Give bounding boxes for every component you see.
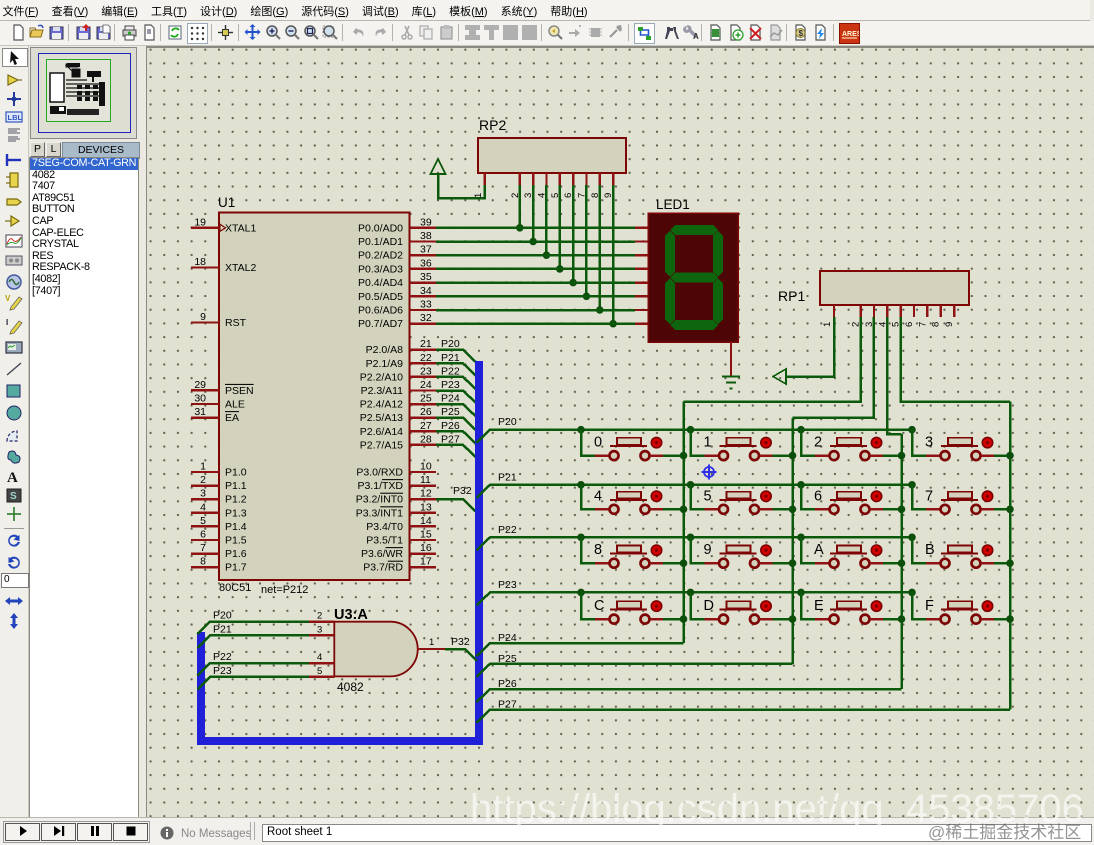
svg-text:1: 1 — [704, 435, 712, 451]
svg-text:P27: P27 — [498, 699, 517, 711]
svg-text:1: 1 — [473, 193, 484, 198]
svg-text:7: 7 — [200, 542, 206, 554]
svg-text:33: 33 — [420, 299, 432, 311]
svg-text:P25: P25 — [441, 406, 460, 418]
svg-text:P21: P21 — [498, 471, 517, 483]
svg-text:PSEN: PSEN — [225, 385, 254, 397]
svg-text:P0.0/AD0: P0.0/AD0 — [358, 222, 403, 234]
svg-text:P0.4/AD4: P0.4/AD4 — [358, 277, 403, 289]
svg-text:P21: P21 — [213, 623, 232, 635]
svg-text:A: A — [7, 470, 18, 485]
svg-text:16: 16 — [420, 542, 432, 554]
svg-text:P32: P32 — [451, 636, 470, 648]
svg-text:4: 4 — [317, 652, 322, 663]
svg-text:3: 3 — [317, 624, 322, 635]
svg-text:P1.1: P1.1 — [225, 480, 247, 492]
svg-text:P25: P25 — [498, 653, 517, 665]
svg-text:P20: P20 — [441, 338, 460, 350]
svg-text:8: 8 — [931, 322, 942, 327]
svg-text:P1.7: P1.7 — [225, 562, 247, 574]
svg-text:2: 2 — [814, 435, 822, 451]
svg-text:9: 9 — [603, 193, 614, 198]
svg-text:17: 17 — [420, 556, 432, 568]
svg-text:P23: P23 — [213, 665, 232, 677]
svg-text:8: 8 — [200, 556, 206, 568]
svg-text:P1.2: P1.2 — [225, 494, 247, 506]
svg-text:4: 4 — [200, 501, 206, 513]
svg-text:P1.4: P1.4 — [225, 521, 247, 533]
svg-text:P3.5/T1: P3.5/T1 — [366, 535, 403, 547]
svg-text:32: 32 — [420, 312, 432, 324]
svg-text:P1.0: P1.0 — [225, 467, 247, 479]
svg-text:P3.6/WR: P3.6/WR — [361, 548, 403, 560]
svg-text:P1.3: P1.3 — [225, 507, 247, 519]
svg-text:P23: P23 — [441, 379, 460, 391]
svg-text:26: 26 — [420, 406, 432, 418]
svg-text:F: F — [925, 598, 934, 614]
svg-text:30: 30 — [194, 393, 206, 405]
svg-text:2: 2 — [510, 193, 521, 198]
svg-text:P1.5: P1.5 — [225, 535, 247, 547]
svg-text:P3.7/RD: P3.7/RD — [363, 562, 403, 574]
svg-text:5: 5 — [200, 515, 206, 527]
svg-text:P20: P20 — [498, 416, 517, 428]
svg-text:P3.0/RXD: P3.0/RXD — [356, 467, 403, 479]
svg-text:9: 9 — [200, 311, 206, 323]
svg-text:EA: EA — [225, 412, 239, 424]
svg-text:4: 4 — [536, 193, 547, 198]
svg-text:4082: 4082 — [337, 680, 364, 694]
svg-text:23: 23 — [420, 365, 432, 377]
svg-text:P0.2/AD2: P0.2/AD2 — [358, 250, 403, 262]
svg-text:B: B — [925, 542, 935, 558]
svg-text:6: 6 — [814, 488, 822, 504]
svg-text:21: 21 — [420, 338, 432, 350]
svg-text:$: $ — [799, 29, 804, 38]
svg-text:I: I — [6, 318, 8, 327]
svg-text:P22: P22 — [498, 524, 517, 536]
svg-text:7: 7 — [917, 322, 928, 327]
svg-text:P2.6/A14: P2.6/A14 — [360, 426, 403, 438]
svg-text:37: 37 — [420, 244, 432, 256]
svg-text:P0.1/AD1: P0.1/AD1 — [358, 236, 403, 248]
svg-text:P20: P20 — [213, 610, 232, 622]
svg-text:RST: RST — [225, 317, 247, 329]
svg-text:P0.7/AD7: P0.7/AD7 — [358, 318, 403, 330]
svg-text:10: 10 — [420, 461, 432, 473]
svg-text:38: 38 — [420, 230, 432, 242]
svg-text:39: 39 — [420, 216, 432, 228]
svg-text:2: 2 — [317, 611, 322, 622]
svg-text:5: 5 — [550, 193, 561, 198]
svg-text:P24: P24 — [498, 632, 517, 644]
svg-text:P0.6/AD6: P0.6/AD6 — [358, 305, 403, 317]
svg-text:29: 29 — [194, 379, 206, 391]
svg-text:P1.6: P1.6 — [225, 548, 247, 560]
svg-text:9: 9 — [944, 322, 955, 327]
svg-text:7: 7 — [576, 193, 587, 198]
svg-text:P2.7/A15: P2.7/A15 — [360, 439, 403, 451]
svg-text:XTAL2: XTAL2 — [225, 262, 256, 274]
svg-text:RP1: RP1 — [778, 288, 805, 304]
svg-text:6: 6 — [200, 529, 206, 541]
svg-text:2: 2 — [200, 474, 206, 486]
svg-text:P2.1/A9: P2.1/A9 — [366, 358, 404, 370]
svg-text:19: 19 — [194, 216, 206, 228]
svg-text:S: S — [10, 491, 17, 502]
svg-text:net=P212: net=P212 — [261, 584, 308, 596]
svg-text:11: 11 — [420, 474, 431, 486]
svg-text:P3.1/TXD: P3.1/TXD — [357, 480, 403, 492]
svg-text:A: A — [693, 32, 699, 41]
svg-text:P26: P26 — [498, 678, 517, 690]
svg-text:ALE: ALE — [225, 399, 245, 411]
svg-text:P2.5/A13: P2.5/A13 — [360, 412, 403, 424]
svg-text:P2.0/A8: P2.0/A8 — [366, 344, 404, 356]
svg-text:U3:A: U3:A — [334, 607, 368, 623]
svg-text:9: 9 — [704, 542, 712, 558]
svg-text:5: 5 — [317, 666, 322, 677]
svg-text:27: 27 — [420, 420, 432, 432]
svg-text:18: 18 — [194, 256, 206, 268]
svg-text:6: 6 — [904, 322, 915, 327]
svg-text:P26: P26 — [441, 420, 460, 432]
svg-text:7: 7 — [925, 488, 933, 504]
svg-text:E: E — [814, 598, 824, 614]
svg-text:P24: P24 — [441, 393, 460, 405]
svg-text:13: 13 — [420, 501, 432, 513]
svg-text:4: 4 — [594, 488, 602, 504]
svg-text:P3.3/INT1: P3.3/INT1 — [356, 507, 403, 519]
svg-text:P3.2/INT0: P3.2/INT0 — [356, 494, 403, 506]
svg-text:34: 34 — [420, 285, 432, 297]
svg-text:1: 1 — [822, 322, 833, 327]
svg-text:0: 0 — [594, 435, 602, 451]
svg-text:P22: P22 — [213, 651, 232, 663]
svg-text:P32: P32 — [453, 485, 472, 497]
svg-text:P23: P23 — [498, 579, 517, 591]
svg-text:V: V — [5, 294, 11, 303]
svg-text:C: C — [594, 598, 604, 614]
svg-text:XTAL1: XTAL1 — [225, 222, 256, 234]
svg-text:D: D — [704, 598, 714, 614]
svg-text:P2.4/A12: P2.4/A12 — [360, 399, 403, 411]
svg-text:24: 24 — [420, 379, 432, 391]
svg-text:P2.3/A11: P2.3/A11 — [361, 385, 404, 397]
svg-text:A: A — [814, 542, 824, 558]
svg-text:3: 3 — [200, 488, 206, 500]
svg-text:31: 31 — [194, 406, 206, 418]
svg-text:8: 8 — [594, 542, 602, 558]
svg-text:35: 35 — [420, 271, 432, 283]
svg-text:P3.4/T0: P3.4/T0 — [366, 521, 403, 533]
svg-text:LED1: LED1 — [656, 197, 690, 212]
svg-text:15: 15 — [420, 529, 432, 541]
svg-text:25: 25 — [420, 393, 432, 405]
svg-text:12: 12 — [420, 488, 432, 500]
svg-text:P27: P27 — [441, 433, 460, 445]
svg-text:36: 36 — [420, 257, 432, 269]
svg-text:3: 3 — [523, 193, 534, 198]
svg-text:1: 1 — [429, 637, 434, 648]
svg-text:P0.5/AD5: P0.5/AD5 — [358, 291, 403, 303]
svg-text:P21: P21 — [441, 352, 460, 364]
svg-text:U1: U1 — [218, 195, 235, 210]
svg-text:ARES: ARES — [842, 31, 859, 38]
svg-text:P2.2/A10: P2.2/A10 — [360, 371, 403, 383]
svg-text:1: 1 — [200, 461, 206, 473]
svg-text:22: 22 — [420, 352, 432, 364]
svg-text:P0.3/AD3: P0.3/AD3 — [358, 263, 403, 275]
svg-text:5: 5 — [704, 488, 712, 504]
svg-text:P22: P22 — [441, 365, 460, 377]
svg-text:80C51: 80C51 — [219, 582, 251, 594]
svg-text:3: 3 — [925, 435, 933, 451]
svg-text:28: 28 — [420, 433, 432, 445]
svg-text:8: 8 — [590, 193, 601, 198]
svg-text:LBL: LBL — [8, 113, 23, 122]
svg-text:14: 14 — [420, 515, 432, 527]
svg-text:RP2: RP2 — [479, 117, 506, 133]
svg-text:6: 6 — [563, 193, 574, 198]
